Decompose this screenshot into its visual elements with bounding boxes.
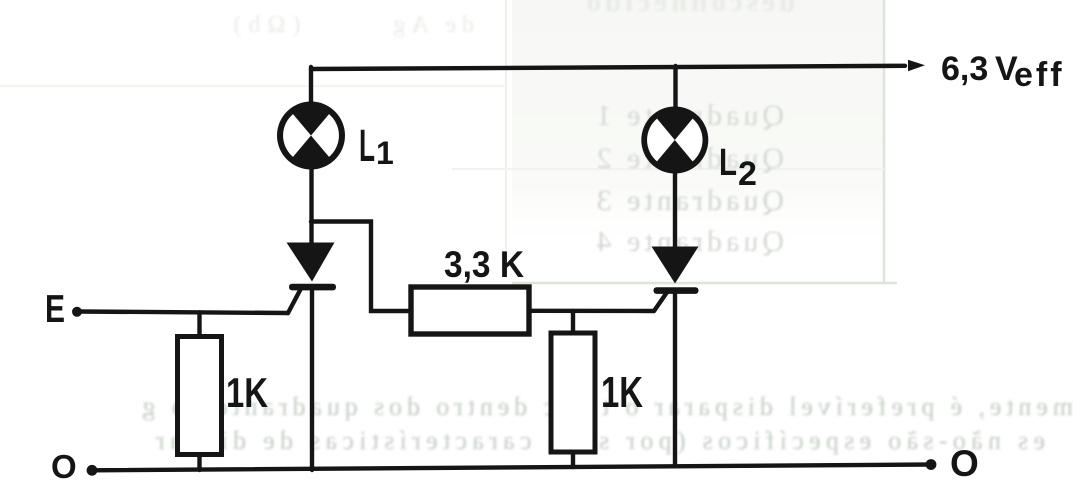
wire SCR1 cathode down to bottom rail: [310, 288, 314, 470]
terminal dot E: [72, 307, 82, 317]
ghost text: desconhecido (mirrored, top centre): [0, 0, 1073, 19]
faint table line vertical right: [883, 0, 886, 284]
wire bottom rail: [92, 465, 931, 471]
svg-text:1K: 1K: [601, 368, 643, 417]
wire R1 top lead: [197, 312, 201, 337]
svg-text:E: E: [45, 288, 65, 331]
wire E input: [77, 312, 288, 314]
wire branch to 3.3K: horizontal off anode: [311, 222, 408, 312]
bleed-through background layer (mirrored print from reverse page): [512, 0, 884, 242]
wire R2 bottom lead: [571, 452, 575, 467]
wire 3.3K right lead to gate SCR2: [531, 309, 654, 314]
svg-text:O: O: [950, 443, 979, 484]
svg-text:L: L: [719, 142, 737, 184]
faint table line horizontal bottom: [512, 282, 897, 285]
wire gate SCR2 diagonal: [654, 292, 668, 312]
wire L2 drop from rail: [673, 66, 677, 108]
svg-text:1: 1: [376, 135, 394, 171]
wire SCR2 cathode down to bottom rail: [673, 292, 677, 466]
wire R2 top lead: [571, 311, 575, 333]
lamp L2: [641, 107, 708, 174]
arrowhead of 6,3V rail: [908, 60, 925, 71]
svg-text:L: L: [359, 120, 375, 171]
resistor R1 1K: [178, 337, 222, 455]
svg-text:O: O: [51, 448, 77, 485]
ghost text: (Ωb) top left: [0, 12, 1073, 39]
faint table line vertical left: [505, 0, 507, 250]
wire gate SCR1 diagonal: [288, 288, 302, 314]
wire L1 drop from rail: [309, 67, 313, 105]
svg-text:6,3: 6,3: [941, 50, 988, 88]
terminal dot O left: [87, 465, 98, 476]
wire top supply rail: [311, 66, 905, 69]
thyristor SCR2: [652, 247, 699, 294]
wire L1 bottom to SCR1 anode: [309, 168, 313, 246]
ghost text: bottom line 2: [0, 426, 1073, 456]
terminal dot O right: [926, 459, 937, 470]
lamp L1: [277, 102, 345, 170]
ghost text: bottom line 1: [0, 392, 1073, 422]
faint table line horizontal top: [0, 85, 506, 87]
faint table line horizontal mid: [452, 168, 884, 170]
ghost text: Quadrante 2: [0, 142, 1073, 176]
svg-text:1K: 1K: [226, 369, 268, 416]
thyristor SCR1: [287, 243, 337, 291]
svg-text:eff: eff: [1014, 56, 1065, 94]
svg-text:2: 2: [738, 155, 757, 193]
resistor R3 3.3K: [411, 287, 529, 334]
resistor R2 1K: [551, 333, 595, 452]
ghost text: Quadrante 4: [0, 225, 1073, 259]
wire L2 bottom to SCR2 anode: [673, 172, 677, 250]
svg-text:3,3 K: 3,3 K: [444, 244, 524, 285]
wire R1 bottom lead: [197, 454, 201, 470]
ghost text: Quadrante 3: [0, 184, 1073, 218]
ghost text: Quadrante 1: [0, 99, 1073, 133]
